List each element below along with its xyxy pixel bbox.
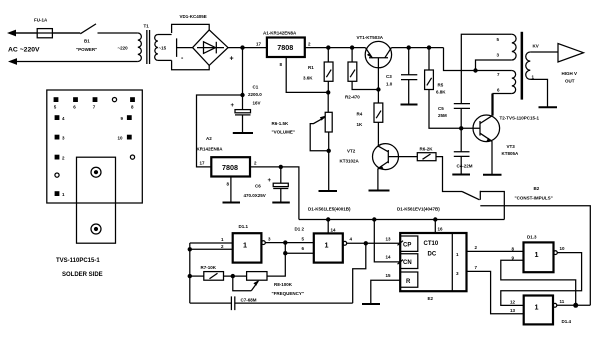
svg-text:+: +	[230, 56, 234, 63]
svg-text:D1.4: D1.4	[562, 319, 572, 324]
PCB hole top	[112, 98, 116, 102]
wire D1.1 out to D1.2 inputs	[265, 236, 314, 242]
svg-text:+: +	[231, 103, 235, 109]
PCB hole right	[130, 155, 134, 159]
node D1.2 output	[364, 241, 368, 245]
svg-text:15: 15	[386, 273, 392, 278]
svg-text:KT805A: KT805A	[502, 151, 520, 156]
svg-text:1: 1	[243, 241, 247, 250]
svg-text:B2: B2	[534, 186, 540, 191]
svg-text:R8-100K: R8-100K	[274, 282, 293, 287]
svg-text:E2: E2	[428, 296, 434, 301]
transformer T2 windings left	[476, 34, 517, 115]
label D1-K561EV1(4047B)	[397, 206, 440, 211]
wire A2 pin 8 to ground	[227, 177, 231, 203]
node bus pin16	[433, 217, 437, 221]
node VT3 base	[459, 126, 463, 130]
PCB pad 6	[73, 97, 78, 109]
node VT1 base	[376, 87, 380, 91]
ground VT2	[369, 190, 390, 192]
svg-text:TVS-110PC15-1: TVS-110PC15-1	[56, 258, 100, 264]
svg-text:KT3102A: KT3102A	[340, 159, 360, 164]
svg-text:B1: B1	[84, 39, 90, 44]
svg-text:10: 10	[560, 246, 566, 251]
svg-text:2200.0: 2200.0	[248, 92, 262, 97]
PCB pad 7	[93, 97, 98, 109]
wire C7 to D1.2 output	[353, 243, 366, 303]
svg-text:CT10: CT10	[424, 241, 439, 247]
wire rail corner to T2 junction	[444, 48, 512, 71]
svg-text:T1: T1	[144, 24, 150, 29]
svg-text:11: 11	[560, 299, 565, 304]
svg-text:KR142EN8A: KR142EN8A	[197, 147, 224, 152]
svg-text:VT3: VT3	[507, 144, 516, 149]
svg-text:6.8K: 6.8K	[436, 90, 446, 95]
gate D1.4	[524, 296, 572, 325]
svg-text:10: 10	[118, 136, 124, 141]
transistor VT3 KT805A	[461, 94, 519, 175]
svg-text:~15: ~15	[159, 45, 167, 50]
svg-text:17: 17	[200, 161, 206, 166]
svg-text:SOLDER SIDE: SOLDER SIDE	[62, 272, 103, 278]
ground C1	[233, 132, 253, 134]
wire D1.1 input pin2	[190, 244, 233, 249]
wire D1.3 pin9 feedback	[501, 256, 576, 306]
svg-text:14: 14	[331, 228, 337, 233]
gate D1.2	[295, 227, 347, 263]
transformer T1	[138, 24, 172, 65]
svg-text:1: 1	[535, 303, 539, 312]
potentiometer R8-100K "FREQUENCY"	[233, 253, 304, 296]
regulator A1 KR142EN8A 7808	[263, 31, 311, 58]
wire A1 pin 8 to node R1 bottom	[280, 57, 329, 92]
capacitor C4-22M	[454, 128, 473, 174]
svg-text:"POWER": "POWER"	[76, 47, 97, 52]
wire pin16 from bus	[435, 220, 443, 234]
label D1-K561LE5(4001B)	[308, 206, 351, 211]
transformer T2 secondary KV	[526, 43, 558, 107]
ground pot	[319, 190, 338, 192]
svg-text:12: 12	[510, 300, 516, 305]
svg-text:D1.1: D1.1	[239, 224, 249, 229]
gate D1.1	[233, 224, 266, 263]
svg-text:3.6K: 3.6K	[303, 76, 313, 81]
wire D1.2 output to CP	[347, 236, 401, 243]
svg-text:R1: R1	[308, 65, 314, 70]
label TVS-110PC15-1	[56, 258, 100, 264]
wire node down to C1 node	[240, 48, 244, 98]
PCB pad 8	[130, 97, 135, 109]
gate D1.3	[524, 235, 558, 273]
wire C5 branch top	[461, 34, 512, 103]
svg-text:3: 3	[456, 271, 459, 276]
node bus CN	[372, 217, 376, 221]
svg-text:470.0X25V: 470.0X25V	[244, 193, 266, 198]
switch B1 "POWER"	[52, 24, 137, 52]
regulator A2 KR142EN8A 7808	[197, 136, 251, 177]
svg-text:OUT: OUT	[565, 79, 575, 84]
wire D1.3 out10 cross	[501, 246, 582, 305]
node D1.2 in bottom	[283, 251, 287, 255]
node T2 center tap junction	[473, 68, 477, 72]
svg-text:A1-KR142EN8A: A1-KR142EN8A	[263, 31, 297, 36]
wire CT10 out7 to D1.4 pin13	[467, 265, 524, 314]
ground C3	[401, 104, 418, 106]
node R2 top	[350, 45, 354, 49]
ground VT3 emitter	[483, 174, 502, 176]
potentiometer R6-1.5K "VOLUME"	[272, 92, 333, 191]
svg-text:D1-K561EV1(4047B): D1-K561EV1(4047B)	[397, 206, 440, 211]
wire D1.4 out11 to node	[557, 299, 591, 305]
transformer T2 core	[521, 32, 524, 100]
svg-text:"CONST-IMPULS": "CONST-IMPULS"	[515, 196, 553, 201]
wire main rail A1 to VT1	[305, 47, 366, 49]
capacitor C3 1.0	[386, 48, 417, 105]
node R1 top	[326, 45, 330, 49]
node bus pin2	[188, 247, 192, 251]
ground C6	[272, 202, 290, 204]
PCB pad 4	[55, 115, 65, 121]
svg-text:1: 1	[535, 250, 539, 259]
wire CT10 out2 to D1.3 pin8	[467, 245, 524, 252]
wire AC line top with arrow	[7, 30, 80, 37]
svg-text:C6: C6	[255, 184, 261, 189]
counter E2 CT10 DC	[398, 233, 467, 301]
node R7 R8	[231, 274, 235, 278]
label AC ~220V	[8, 47, 40, 54]
svg-text:HIGH V: HIGH V	[562, 71, 578, 76]
output triangle HIGH V OUT	[558, 44, 584, 84]
node pot bottom	[327, 149, 331, 153]
fuse FU-1A	[14, 18, 52, 38]
PCB pad 2	[55, 155, 65, 161]
PCB pad 9	[121, 115, 132, 121]
bridge rectifier VD1-KC405E	[172, 14, 234, 70]
svg-text:R6-2K: R6-2K	[420, 147, 434, 152]
transistor VT1 KT503A	[357, 35, 392, 90]
PCB pad 5	[54, 97, 59, 109]
label pin 17 A1	[256, 42, 262, 47]
wire CN input from bus	[374, 220, 400, 262]
capacitor C5 25M	[438, 104, 470, 129]
node D1.4 output	[573, 303, 578, 308]
svg-text:"FREQUENCY": "FREQUENCY"	[272, 291, 305, 296]
node R1 bottom	[326, 90, 330, 94]
capacitor C6 470.0X25V	[244, 167, 289, 203]
label SOLDER SIDE	[62, 272, 103, 278]
capacitor C7-68M	[190, 296, 353, 310]
svg-text:"VOLUME": "VOLUME"	[272, 130, 296, 135]
switch B2 "CONST-IMPULS"	[462, 186, 590, 305]
svg-text:R2-470: R2-470	[345, 95, 360, 100]
node C3 top	[407, 45, 411, 49]
transistor VT2 KT3102A	[340, 144, 418, 191]
svg-text:1: 1	[325, 241, 329, 250]
wire AC line bottom with arrow	[8, 58, 138, 65]
svg-text:A2: A2	[206, 136, 212, 141]
node D1.2 in top	[283, 240, 287, 244]
svg-text:7808: 7808	[222, 163, 238, 172]
capacitor C1 2200.0 16V	[231, 85, 263, 134]
svg-text:1: 1	[456, 252, 459, 257]
node bus pin14	[326, 217, 330, 221]
svg-text:VT1-KT503A: VT1-KT503A	[357, 35, 384, 40]
ground C4	[452, 174, 470, 176]
PCB pad 1	[55, 191, 65, 197]
svg-text:D1.3: D1.3	[527, 235, 537, 240]
wire A2 input routing	[197, 95, 243, 167]
svg-text:13: 13	[510, 308, 516, 313]
svg-text:R5: R5	[438, 83, 444, 88]
PCB hole left	[55, 173, 59, 177]
svg-text:C4-22M: C4-22M	[457, 164, 473, 169]
svg-text:D1-K561LE5(4001B): D1-K561LE5(4001B)	[308, 206, 351, 211]
svg-text:13: 13	[386, 237, 392, 242]
PCB mounting hole 1	[91, 167, 101, 177]
PCB connector outline	[77, 157, 116, 243]
svg-text:C1: C1	[253, 85, 259, 90]
node C6	[279, 165, 283, 169]
svg-text:C5: C5	[438, 106, 444, 111]
svg-text:R4: R4	[357, 112, 363, 117]
svg-text:~220: ~220	[118, 46, 129, 51]
resistor R7-10K	[190, 265, 247, 280]
svg-text:FU-1A: FU-1A	[34, 18, 48, 23]
node bus R7	[188, 274, 192, 278]
svg-text:AC ~220V: AC ~220V	[8, 47, 40, 54]
wire bridge output to node	[228, 47, 267, 49]
svg-text:+: +	[268, 178, 272, 184]
bus +8V logic supply	[299, 219, 504, 221]
svg-text:16V: 16V	[253, 100, 261, 105]
svg-text:25M: 25M	[438, 113, 447, 118]
node R5 top	[427, 45, 431, 49]
svg-text:C3: C3	[386, 74, 392, 79]
svg-text:CP: CP	[403, 242, 411, 248]
resistor R4 1K	[357, 90, 383, 144]
svg-text:1.0: 1.0	[386, 82, 393, 87]
ground R pin	[362, 303, 380, 305]
svg-text:7808: 7808	[277, 43, 293, 52]
svg-text:T2-TVS-110PC15-1: T2-TVS-110PC15-1	[500, 116, 540, 121]
label ~220	[118, 46, 129, 51]
resistor R2 470	[345, 48, 378, 100]
svg-text:17: 17	[256, 42, 262, 47]
svg-text:VT2: VT2	[347, 149, 356, 154]
svg-text:16: 16	[438, 227, 444, 232]
wire left feedback bus	[189, 243, 191, 303]
ground A2	[223, 202, 241, 204]
svg-text:1K: 1K	[357, 122, 364, 127]
wire D1.2 pin14 power	[328, 220, 336, 234]
PCB mounting hole 2	[91, 224, 101, 234]
ground T2 secondary	[539, 106, 558, 108]
svg-text:CN: CN	[403, 260, 412, 266]
wire R input to ground	[371, 273, 400, 304]
node main +	[240, 45, 244, 49]
wire D1.2 input pin6	[285, 236, 314, 253]
svg-text:R6-1.5K: R6-1.5K	[272, 121, 290, 126]
svg-text:R7-10K: R7-10K	[201, 265, 217, 270]
svg-text:VD1-KC405E: VD1-KC405E	[180, 14, 207, 19]
resistor R5 6.8K	[425, 48, 462, 129]
wire rail VT1 to corner	[391, 47, 443, 49]
resistor R1 3.6K	[303, 48, 333, 93]
svg-text:14: 14	[386, 255, 392, 260]
PCB outline board	[47, 90, 143, 203]
svg-text:R: R	[406, 279, 411, 285]
label T2-TVS-110PC15-1	[500, 116, 540, 121]
resistor R6-2K horizontal	[417, 147, 462, 192]
svg-text:DC: DC	[428, 252, 437, 258]
PCB pad 3	[55, 135, 65, 141]
svg-text:D1 2: D1 2	[295, 227, 305, 232]
wire D1.1 input pin1	[190, 237, 233, 243]
wire A2 output	[250, 161, 299, 220]
PCB pad 10	[118, 135, 132, 141]
svg-text:C7-68M: C7-68M	[241, 298, 257, 303]
svg-text:KV: KV	[533, 43, 539, 48]
